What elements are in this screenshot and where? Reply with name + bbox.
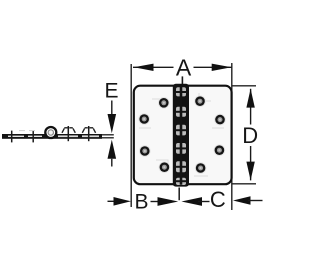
side view hidden countersink 1 xyxy=(62,128,75,133)
dimension E line upper xyxy=(111,101,113,115)
dimension A line left xyxy=(133,66,174,68)
svg-text:D: D xyxy=(242,123,258,148)
dimension D line lower xyxy=(250,146,252,180)
dimension C inner arrow xyxy=(181,197,202,206)
knuckle segment 3 xyxy=(176,125,186,136)
dimension D line upper xyxy=(250,89,252,125)
svg-text:B: B xyxy=(134,191,148,214)
knuckle column xyxy=(173,84,189,187)
side view knuckle barrel circle xyxy=(45,127,56,138)
screw hole R3 xyxy=(214,144,226,156)
D bottom extension line xyxy=(232,183,256,185)
screw hole R2 xyxy=(214,114,226,126)
side view screw ticks xyxy=(12,126,89,142)
knuckle segment 6 xyxy=(176,178,186,185)
screw hole R4 xyxy=(195,162,207,174)
svg-text:A: A xyxy=(176,55,192,81)
dimension A arrow right xyxy=(212,64,232,71)
side view hidden countersink 2 xyxy=(82,128,95,133)
dimension C outside arrow xyxy=(233,196,251,205)
knuckle segment 4 xyxy=(176,143,186,154)
dimension B outside arrow xyxy=(114,197,132,206)
dimension D arrow down xyxy=(246,162,254,181)
faint pressed marks xyxy=(139,93,224,176)
dimension C inner line xyxy=(198,201,210,203)
knuckle segment joints xyxy=(175,92,187,181)
left extension line xyxy=(130,64,132,207)
dimension E arrow up xyxy=(108,140,117,159)
right extension line xyxy=(231,63,233,210)
side view leaf bar xyxy=(2,134,102,139)
screw hole L1 xyxy=(158,97,170,109)
knuckle segment 1 xyxy=(176,87,186,96)
dimension B outside line xyxy=(108,200,117,202)
dimension E arrow down xyxy=(108,114,117,133)
knuckle pin line xyxy=(180,86,183,185)
knuckle segment 5 xyxy=(176,161,186,172)
screw hole R1 xyxy=(194,95,206,107)
dimension C outside line xyxy=(248,200,263,202)
pin tick below A xyxy=(181,76,183,84)
screw hole L4 xyxy=(159,161,171,173)
dimension B inner line xyxy=(151,201,163,203)
screw hole L2 xyxy=(138,113,150,125)
dimension B inner arrow xyxy=(158,197,179,206)
dimension A line right xyxy=(194,66,232,68)
side view hidden countersink left faint xyxy=(19,130,35,132)
dimension E line lower xyxy=(111,159,113,167)
dimension E extension ticks xyxy=(102,135,114,138)
svg-text:C: C xyxy=(210,187,226,212)
svg-text:E: E xyxy=(104,80,118,103)
dimension D arrow up xyxy=(246,89,254,108)
knuckle segment 2 xyxy=(176,107,186,117)
D top extension line xyxy=(232,85,256,87)
hinge plate xyxy=(134,86,232,185)
dimension A arrow left xyxy=(134,64,154,71)
center tick xyxy=(178,188,180,201)
screw hole L3 xyxy=(139,145,151,157)
